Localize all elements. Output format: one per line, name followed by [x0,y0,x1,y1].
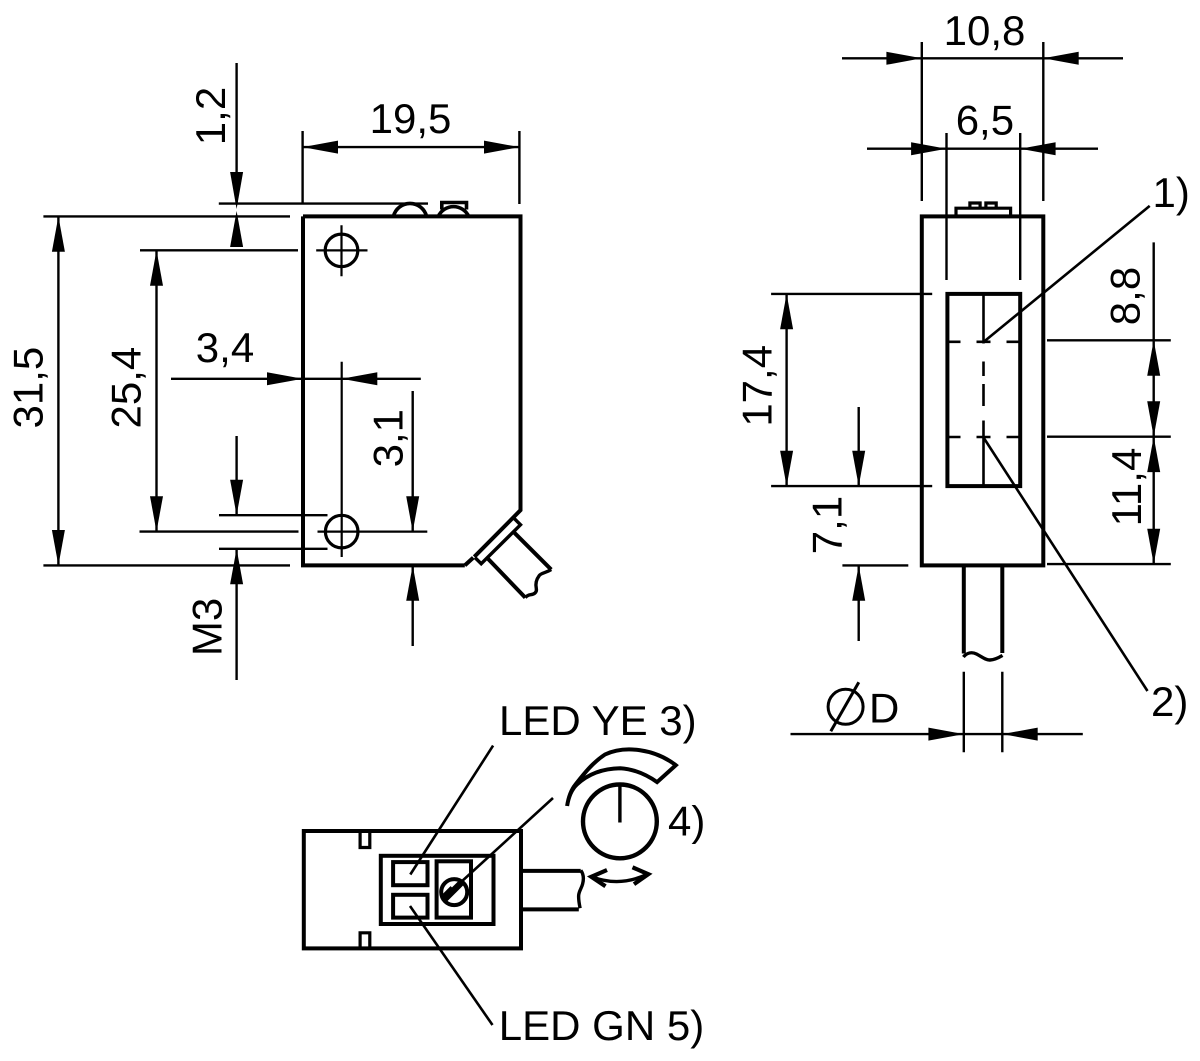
tab 1 [970,203,980,208]
dim 17,4 extension bottom [771,485,932,487]
front view arrowheads [52,141,520,601]
dim 10,8 line [842,57,1123,59]
top plinth [956,208,1011,216]
potentiometer cap rectangle [442,203,467,210]
dim 25,4 line [155,250,157,531]
dim 31,5 line [57,216,59,565]
svg-text:19,5: 19,5 [370,95,452,142]
dim 1,2 line [235,63,237,204]
svg-text:LED GN 5): LED GN 5) [499,1002,704,1049]
svg-text:1): 1) [1153,169,1190,216]
dim 25,4 extension top [140,249,298,251]
arrow 25,4 bottom [150,496,163,531]
bottom view texts [499,697,706,1049]
body bottom-right step to chamfer [465,558,474,566]
arrow 3,4 rightward at body edge [267,372,303,385]
arrow 6,5 left-pointing [1020,142,1055,155]
knob indicator line [618,785,621,823]
svg-text:17,4: 17,4 [734,345,781,427]
adjustment knob circle [583,785,657,859]
arrow 11,4 up [1147,437,1160,472]
svg-text:31,5: 31,5 [5,347,52,429]
notch lower [360,933,370,949]
M3 tangent line upper [219,514,328,516]
dim 3,1 line upper [412,391,414,532]
diameter symbol slash [831,682,859,731]
bottom cable tube [521,871,581,910]
dim 11,4 extension line 3 [1047,563,1171,565]
dim 8,8 extension line 1 [1047,339,1171,341]
arrow 7,1 down [852,451,865,486]
svg-text:2): 2) [1151,678,1188,725]
potentiometer screw circle [441,879,467,905]
svg-text:4): 4) [668,798,705,845]
dim 7,1 extension bottom [842,564,908,566]
arrow diameter D right-pointing [928,728,963,741]
svg-text:LED YE 3): LED YE 3) [499,697,697,744]
dim 8,8 + 11,4 line [1152,242,1154,564]
arrow 17,4 up [780,294,793,329]
front view dimension texts [5,87,452,656]
svg-text:10,8: 10,8 [944,7,1026,54]
svg-text:6,5: 6,5 [956,97,1014,144]
arrow 19,5 right [484,141,519,154]
bottom view body outline [304,831,521,948]
arrow M3 up [230,549,243,584]
arrow 3,4 leftward at hole axis [342,372,378,385]
arrow 31,5 bottom [52,530,65,565]
bottom cable wavy break [579,870,584,908]
svg-text:3,1: 3,1 [365,409,412,467]
dim 6,5 line [867,147,1098,149]
dim 10,8 extension lines [922,42,1044,201]
dim 19,5 extension lines [303,131,520,204]
side view arrowheads [780,52,1160,741]
arrow 11,4 down [1147,529,1160,564]
arrow 6,5 right-pointing [911,142,946,155]
side view body outline [922,216,1044,565]
dim 6,5 extension lines [947,133,1021,280]
cable gland collar on chamfer [475,519,521,564]
dim 31,5 extension top [43,215,290,217]
mounting hole top crosshair [316,225,367,276]
lens center line solid top [982,294,985,344]
dim M3 line lower [235,549,237,680]
cable break wavy end [525,570,551,598]
arrow 3,1 down [406,496,419,531]
potentiometer dome on top edge [438,207,468,217]
arrow 10,8 right-pointing at left edge [886,52,921,65]
diameter symbol circle [828,689,863,724]
arrow 10,8 left-pointing at right edge [1043,52,1078,65]
swing arrow right head [633,867,649,884]
arrow 8,8 down [1147,401,1160,436]
tab 2 [986,203,996,208]
swing arrow left head [591,870,607,886]
cable tube at 45 degrees [488,532,552,598]
arrow 1,2 up from below [230,211,243,247]
arrow M3 down [230,480,243,515]
diameter D extension lines [964,672,1003,753]
svg-text:M3: M3 [184,598,231,656]
dim 3,4 line [171,378,421,380]
leader line 1) [984,206,1150,342]
svg-text:11,4: 11,4 [1103,448,1150,527]
rotation crescent arrow [567,749,676,806]
front view body outline [303,216,521,565]
screw slot edge line [443,887,452,896]
dim 7,1 line lower [858,565,860,641]
leader potentiometer [455,798,554,888]
side cable wavy break [963,653,1002,660]
leader LED GN [410,906,493,1025]
mounting hole bottom circle [325,515,358,548]
svg-text:25,4: 25,4 [103,347,150,429]
screw slot lines [445,882,463,900]
arrow 7,1 up [852,565,865,600]
LED window 1 [393,862,427,885]
mounting hole top circle [325,234,358,267]
side cable tube [964,565,1003,653]
dim 25,4 extension bottom [140,530,299,532]
optical axis 1 dashes [949,340,1020,343]
svg-text:7,1: 7,1 [804,496,851,554]
optical axis 2 dashes [949,436,1020,439]
LED dome on top edge [393,203,426,216]
leader LED YE [410,746,493,875]
mounting hole bottom crosshair horizontal (extended right for 3,1) [318,530,428,532]
arrow 1,2 down to lens line [230,172,243,209]
mounting hole bottom crosshair vertical (extension of 3,4) [341,362,343,557]
potentiometer frame [437,861,471,917]
svg-text:8,8: 8,8 [1102,267,1149,325]
arrow 31,5 top [52,216,65,251]
dim 17,4 extension top [771,293,932,295]
dim 7,1 line upper [858,407,860,486]
leader line 2) [984,438,1148,692]
swing arrow arc [592,874,648,881]
lens center line dashed middle [982,362,985,437]
svg-text:D: D [869,685,899,732]
M3 tangent line lower [219,548,328,550]
side view texts [734,7,1190,732]
dim 8,8 / 11,4 extension line 2 [1047,436,1171,438]
LED window 2 [393,895,427,918]
dim 17,4 line [785,294,787,486]
dim 19,5 line [303,146,520,148]
svg-text:1,2: 1,2 [187,87,234,145]
arrow 19,5 left [303,141,338,154]
arrow 25,4 top [150,250,163,285]
dim 3,1 line lower [412,565,414,646]
notch upper [360,831,370,848]
arrow 3,1 up [406,565,419,600]
lens window rectangle [947,294,1020,486]
arrow diameter D left-pointing [1002,728,1037,741]
lens center line solid bottom [982,437,985,486]
arrow 8,8 up [1147,340,1160,375]
arrow 17,4 down [780,451,793,486]
inner panel rectangle [381,856,494,924]
lens face line (1,2 reference) [219,202,428,204]
diameter D dimension line [791,733,1083,735]
dim M3 line upper [235,436,237,515]
dim 31,5 extension bottom [43,564,290,566]
svg-text:3,4: 3,4 [196,324,254,371]
